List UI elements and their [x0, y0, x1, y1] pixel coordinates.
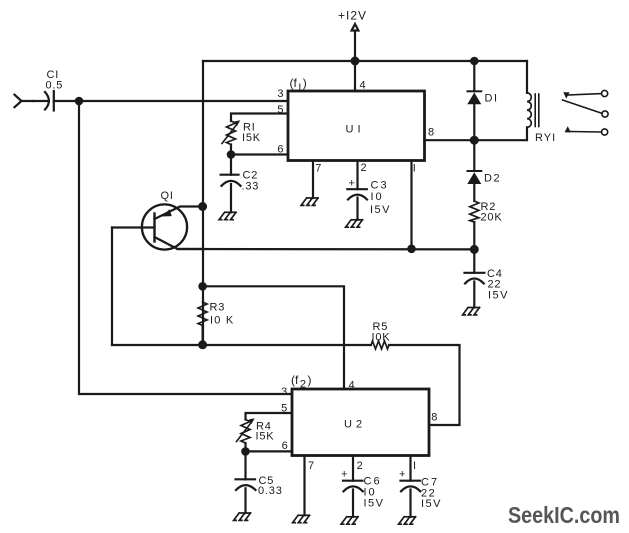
wire U1 pin 1: [410, 161, 412, 249]
resistor R4 (variable): [241, 420, 250, 444]
node pin1/collector junction: [408, 246, 414, 252]
wire base down: [111, 228, 113, 346]
resistor R1 (variable): [227, 121, 236, 145]
svg-text:8: 8: [431, 412, 437, 424]
node D1 branch junction: [471, 58, 477, 64]
wire junction down left side: [79, 101, 292, 394]
svg-text:I0K: I0K: [372, 332, 391, 344]
svg-text:0.33: 0.33: [258, 485, 283, 497]
svg-text:SeekIC.com: SeekIC.com: [508, 502, 620, 528]
resistor R5: [371, 341, 389, 349]
capacitor C2: [230, 155, 232, 175]
input connector: [15, 95, 34, 108]
wire input to C1: [33, 100, 47, 102]
svg-text:I0 K: I0 K: [210, 315, 234, 327]
svg-text:I5V: I5V: [370, 204, 391, 216]
svg-text:2: 2: [357, 460, 363, 472]
node emitter/left-rail junction: [199, 203, 206, 210]
ground U1 pin 7: [301, 198, 318, 205]
node R3 bottom junction: [199, 341, 206, 348]
svg-text:7: 7: [308, 460, 314, 472]
svg-text:DI: DI: [485, 93, 499, 105]
wire R3-top to U2 pin 4: [203, 286, 344, 389]
ground U2 pin 7: [293, 515, 310, 522]
svg-text:.33: .33: [242, 181, 260, 193]
wire R5 to U2 pin 8: [389, 345, 460, 425]
capacitor C5: [244, 451, 246, 479]
node R2/C4/collector junction: [471, 246, 478, 253]
svg-text:8: 8: [428, 127, 434, 139]
resistor R2: [470, 201, 479, 222]
wire top rail to D1: [473, 61, 475, 91]
svg-text:+: +: [399, 469, 406, 481]
svg-text:5: 5: [277, 104, 283, 116]
svg-text:3: 3: [277, 88, 283, 100]
svg-text:6: 6: [277, 144, 283, 156]
wire U1 pin 2: [356, 161, 358, 190]
svg-text:QI: QI: [161, 190, 174, 202]
ground under C6: [341, 517, 358, 524]
wire U1 pin 4 stem: [354, 61, 356, 91]
wire U2 pin 7: [303, 456, 305, 516]
node R1/C2/pin6 junction: [228, 151, 234, 157]
diode D2: [473, 140, 475, 171]
svg-text:+I2V: +I2V: [338, 9, 367, 23]
svg-text:20K: 20K: [481, 212, 503, 224]
svg-text:I: I: [413, 460, 416, 472]
capacitor C4: [473, 249, 475, 272]
svg-text:I5V: I5V: [364, 498, 385, 510]
svg-text:7: 7: [315, 162, 321, 174]
svg-text:R3: R3: [210, 302, 226, 314]
wire U1 pin 7: [312, 161, 314, 198]
ground under C2: [219, 212, 236, 219]
svg-text:2: 2: [361, 162, 367, 174]
wire U1 pin 6: [231, 153, 288, 155]
svg-text:RYI: RYI: [535, 132, 556, 144]
IC U2: [292, 389, 429, 456]
node pin8/D1/relay junction: [471, 137, 478, 144]
relay RY1 contacts: [563, 92, 569, 99]
node R4/C5/pin6 junction: [242, 448, 248, 454]
svg-text:0.5: 0.5: [46, 80, 64, 92]
wire left rail: [202, 61, 204, 345]
capacitor C7: [401, 480, 421, 482]
svg-text:U I: U I: [346, 124, 362, 136]
svg-text:4: 4: [349, 379, 355, 391]
node R3 top junction: [199, 283, 205, 289]
svg-text:I5V: I5V: [421, 498, 442, 510]
svg-text:6: 6: [282, 440, 288, 452]
wire U2 pin 6: [246, 450, 293, 452]
svg-text:+: +: [341, 469, 348, 481]
ground under C4: [463, 308, 480, 315]
svg-text:U 2: U 2: [344, 419, 363, 431]
capacitor C1: [45, 92, 49, 110]
power +12V stem: [352, 24, 359, 61]
ground under C5: [234, 513, 251, 520]
capacitor C6: [343, 480, 363, 482]
wire bottom line to R5: [112, 344, 371, 346]
wire U2 pin 1: [409, 456, 411, 481]
svg-text:D2: D2: [484, 173, 501, 185]
relay RY1 coil: [526, 61, 528, 93]
svg-text:C3: C3: [371, 180, 389, 192]
svg-text:4: 4: [360, 80, 366, 92]
svg-text:I5K: I5K: [256, 431, 275, 443]
wire U2 pin 2: [352, 456, 354, 481]
ground under C3: [346, 220, 363, 227]
svg-text:I: I: [413, 162, 416, 174]
node +12V junction: [352, 58, 359, 65]
wire U1 pin 5 to R1: [231, 114, 288, 122]
node input junction: [76, 98, 82, 104]
diode D1: [468, 90, 482, 92]
wire U2 pin 5 to R4: [246, 413, 293, 420]
svg-text:I5V: I5V: [488, 290, 509, 302]
svg-text:I0: I0: [371, 191, 384, 203]
wire +12V top rail: [203, 60, 527, 62]
resistor R3: [198, 302, 207, 326]
ground under C7: [399, 517, 416, 524]
wire collector line: [178, 248, 475, 251]
capacitor C3: [347, 188, 367, 190]
transistor Q1: [142, 204, 187, 249]
svg-text:5: 5: [281, 403, 287, 415]
svg-text:+: +: [349, 178, 356, 190]
wire C1 to U1 pin 3: [54, 100, 288, 102]
IC U1: [288, 91, 425, 161]
svg-text:I5K: I5K: [242, 132, 261, 144]
svg-text:3: 3: [281, 386, 287, 398]
wire U1 pin 8: [425, 139, 475, 141]
